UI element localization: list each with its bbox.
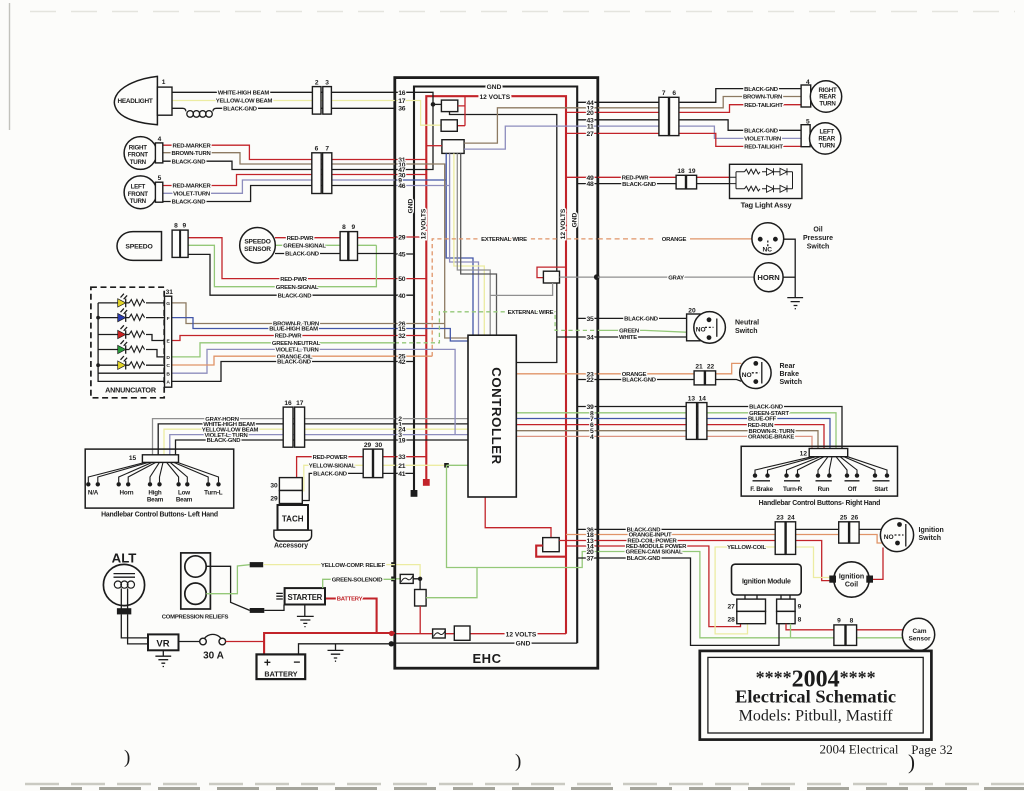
GND bottom row bbox=[395, 642, 577, 644]
svg-text:28: 28 bbox=[727, 616, 735, 623]
connector 13-14 bbox=[686, 403, 696, 440]
svg-text:RED-PWR: RED-PWR bbox=[275, 334, 303, 340]
salmon wire pin4 bbox=[516, 435, 597, 437]
battery negative wire bbox=[299, 644, 395, 655]
horn H1 bbox=[754, 263, 783, 292]
svg-text:Handlebar Control Buttons- Rig: Handlebar Control Buttons- Right Hand bbox=[759, 500, 881, 507]
svg-text:Beam: Beam bbox=[176, 497, 193, 504]
black stub pin39 bbox=[577, 406, 597, 408]
svg-text:17: 17 bbox=[296, 400, 304, 407]
12V bus terminal square bbox=[423, 479, 430, 486]
connector 6-7 bbox=[312, 153, 321, 194]
ground symbol oil/horn bbox=[787, 298, 803, 309]
connector 31 strip bbox=[165, 296, 172, 387]
row C yellow LED + resistor bbox=[98, 356, 164, 370]
svg-text:BROWN-TURN: BROWN-TURN bbox=[171, 151, 210, 157]
fuse 30A bbox=[205, 634, 222, 638]
red stub pin33 bbox=[395, 456, 427, 458]
svg-text:C: C bbox=[166, 363, 170, 369]
svg-text:24: 24 bbox=[787, 515, 795, 522]
svg-text:BATTERY: BATTERY bbox=[264, 669, 297, 678]
switch pair bars right hand bbox=[753, 480, 890, 482]
starter brush symbol bbox=[276, 593, 283, 599]
svg-text:Pressure: Pressure bbox=[803, 235, 833, 242]
coil terminal left bbox=[829, 576, 836, 583]
svg-text:GREEN-CAM SIGNAL: GREEN-CAM SIGNAL bbox=[626, 550, 683, 556]
orange wire pin23 bbox=[516, 373, 597, 375]
VR regulator bbox=[148, 634, 179, 650]
svg-text:BROWN-TURN: BROWN-TURN bbox=[743, 95, 782, 101]
EHC box bbox=[395, 78, 598, 669]
switch labels left hand bbox=[88, 490, 223, 504]
module legs bbox=[745, 595, 790, 599]
wire speedo red-pwr bbox=[188, 238, 395, 279]
tag light assy E1 bbox=[730, 164, 802, 198]
svg-text:2004 Electrical: 2004 Electrical bbox=[819, 742, 898, 757]
svg-text:22: 22 bbox=[707, 364, 715, 371]
left rear turn lamp bbox=[801, 125, 810, 147]
wire brown-turn RF turn bbox=[163, 153, 395, 164]
svg-text:45: 45 bbox=[398, 252, 405, 259]
wire speedo green-signal bbox=[188, 245, 376, 286]
wire relief bottom green to lug1 bbox=[206, 565, 250, 594]
battery positive feed red bbox=[264, 599, 395, 655]
svg-text:GREEN-SIGNAL: GREEN-SIGNAL bbox=[283, 244, 326, 250]
svg-text:Turn-L: Turn-L bbox=[204, 490, 223, 497]
svg-text:NC: NC bbox=[763, 247, 773, 254]
GND bus terminal square bbox=[411, 490, 418, 497]
switch labels right hand bbox=[750, 486, 889, 493]
wire module to cam red bbox=[786, 624, 904, 630]
wire white-high beam hb bbox=[158, 424, 395, 455]
right rear turn lamp bbox=[801, 85, 811, 107]
wire horn to ground bbox=[783, 276, 795, 278]
tach connector stack bbox=[279, 478, 302, 491]
connector 27-28 bbox=[737, 599, 766, 611]
svg-text:21: 21 bbox=[695, 364, 703, 371]
svg-text:RED-TAILIGHT: RED-TAILIGHT bbox=[744, 103, 783, 109]
relay K1 output white wire to pin34 bbox=[450, 112, 598, 363]
svg-text:37: 37 bbox=[587, 556, 594, 563]
svg-text:Handlebar Control Buttons- Lef: Handlebar Control Buttons- Left Hand bbox=[101, 511, 218, 518]
svg-text:B: B bbox=[166, 371, 170, 377]
svg-text:23: 23 bbox=[776, 515, 784, 522]
svg-text:RED-MARKER: RED-MARKER bbox=[172, 143, 211, 149]
strip pin letters bbox=[166, 301, 170, 386]
svg-text:8: 8 bbox=[850, 618, 854, 625]
EHC right pin numbers bbox=[587, 100, 594, 563]
svg-text:20: 20 bbox=[688, 308, 696, 315]
svg-text:48: 48 bbox=[587, 181, 594, 188]
svg-text:33: 33 bbox=[398, 454, 405, 461]
junction dot comp-relief bbox=[413, 579, 420, 590]
svg-text:Sensor: Sensor bbox=[908, 636, 931, 643]
svg-text:21: 21 bbox=[398, 463, 405, 470]
svg-text:20: 20 bbox=[587, 110, 594, 117]
svg-text:Switch: Switch bbox=[735, 328, 758, 335]
connector 2-3 bbox=[312, 87, 321, 115]
svg-text:YELLOW-COMP. RELIEF: YELLOW-COMP. RELIEF bbox=[321, 563, 386, 569]
wire red-coil power bbox=[598, 541, 830, 581]
svg-text:GREEN-SOLENOID: GREEN-SOLENOID bbox=[332, 578, 383, 584]
neutral switch S2 bbox=[687, 314, 700, 341]
wire black-gnd hbr bbox=[598, 407, 842, 449]
svg-text:4: 4 bbox=[590, 434, 594, 441]
black stub pin41 bbox=[395, 472, 414, 474]
connector 18-19 bbox=[676, 175, 685, 189]
wire green-cam signal bbox=[598, 552, 834, 638]
wire black-gnd hb bbox=[176, 440, 395, 455]
headlight coil loops bbox=[187, 111, 213, 118]
wire black-gnd RF turn bbox=[163, 161, 395, 169]
svg-text:RED-PWR: RED-PWR bbox=[287, 236, 315, 242]
svg-text:WHITE-HIGH BEAM: WHITE-HIGH BEAM bbox=[218, 90, 270, 96]
svg-text:9: 9 bbox=[837, 618, 841, 625]
wire black-gnd headlight with coil bbox=[172, 108, 395, 111]
blue wire pin15 to controller bbox=[395, 329, 468, 342]
wire fuse to battery red bbox=[226, 641, 265, 643]
black stub pin35 bbox=[577, 317, 597, 319]
svg-text:5: 5 bbox=[806, 119, 810, 126]
svg-text:YELLOW-SIGNAL: YELLOW-SIGNAL bbox=[309, 464, 356, 470]
svg-text:4: 4 bbox=[158, 136, 162, 143]
violet bundle wire pin46 bbox=[395, 153, 479, 335]
svg-text:RED-RUN: RED-RUN bbox=[748, 423, 774, 429]
svg-text:40: 40 bbox=[398, 293, 405, 300]
relay K2 green to cam-signal net bbox=[426, 568, 477, 598]
orange stub pin18 bbox=[566, 534, 597, 536]
svg-text:VIOLET-TURN: VIOLET-TURN bbox=[173, 191, 210, 197]
black stub pin44 bbox=[577, 101, 597, 103]
wire white neutral bbox=[598, 336, 689, 338]
ALT G1 bbox=[103, 564, 144, 605]
ALT stator symbol bbox=[114, 574, 136, 578]
wire red-tailight RR bbox=[598, 105, 801, 113]
connector 9-8 cam bbox=[834, 625, 845, 646]
svg-text:BLACK-GND: BLACK-GND bbox=[624, 317, 658, 323]
green wire pin8 bbox=[516, 412, 597, 414]
junction dot relay K1 feed bbox=[431, 102, 436, 107]
svg-text:BLUE-HIGH BEAM: BLUE-HIGH BEAM bbox=[269, 327, 318, 333]
svg-text:19: 19 bbox=[398, 438, 405, 445]
svg-text:F: F bbox=[167, 316, 170, 322]
svg-text:9: 9 bbox=[798, 603, 802, 610]
headlight LP1 shell bbox=[114, 76, 157, 124]
relay K3 bbox=[442, 140, 464, 154]
handlebar right box bbox=[741, 446, 897, 496]
svg-text:12 VOLTS: 12 VOLTS bbox=[506, 631, 537, 638]
wire black-gnd LF turn bbox=[163, 186, 395, 202]
svg-text:RED-PWR: RED-PWR bbox=[622, 176, 650, 182]
border terminal square yellow bbox=[391, 562, 396, 567]
svg-text:Switch: Switch bbox=[919, 535, 942, 542]
svg-text:RIGHT: RIGHT bbox=[129, 144, 147, 151]
svg-text:6: 6 bbox=[315, 145, 319, 152]
svg-text:GND: GND bbox=[408, 198, 415, 213]
red stub pin13 bbox=[559, 540, 597, 542]
connector 23-24 bbox=[775, 522, 785, 555]
rear brake switch S3 bbox=[740, 357, 771, 388]
tach signal yellow stub pin21 bbox=[395, 464, 447, 466]
wire orange-brake bbox=[598, 436, 812, 448]
svg-text:Models: Pitbull, Mastiff: Models: Pitbull, Mastiff bbox=[739, 708, 894, 725]
svg-text:SENSOR: SENSOR bbox=[244, 246, 271, 253]
cam sensor B2 bbox=[902, 618, 934, 650]
svg-text:VIOLET-L. TURN: VIOLET-L. TURN bbox=[275, 348, 318, 354]
svg-text:BLACK-GND: BLACK-GND bbox=[744, 87, 778, 93]
svg-text:ANNUNCIATOR: ANNUNCIATOR bbox=[105, 386, 157, 395]
svg-text:27: 27 bbox=[727, 603, 735, 610]
svg-text:30: 30 bbox=[270, 482, 278, 489]
red stub pin27 bbox=[566, 132, 597, 134]
row D green LED + resistor bbox=[98, 340, 164, 357]
svg-text:1: 1 bbox=[162, 79, 166, 86]
black stub pin48 bbox=[577, 183, 597, 185]
red stub pin14 bbox=[566, 545, 597, 547]
svg-text:22: 22 bbox=[587, 377, 594, 384]
svg-text:SPEEDO: SPEEDO bbox=[244, 238, 270, 245]
black stub pin22 bbox=[577, 379, 597, 381]
svg-text:BLUE-OFF: BLUE-OFF bbox=[748, 417, 777, 423]
black stub pin37 bbox=[577, 557, 597, 559]
wire yellow-low beam bbox=[172, 100, 395, 102]
junction square tach/cam signal bbox=[444, 463, 449, 468]
svg-text:46: 46 bbox=[398, 183, 405, 190]
svg-text:Brake: Brake bbox=[780, 371, 800, 378]
relay K1 bbox=[441, 100, 457, 112]
12 VOLTS bottom row bbox=[395, 633, 566, 635]
black wire pin19 bbox=[395, 439, 468, 441]
svg-text:19: 19 bbox=[688, 168, 696, 175]
svg-text:2: 2 bbox=[315, 79, 319, 86]
svg-text:EHC: EHC bbox=[473, 651, 502, 666]
svg-text:29: 29 bbox=[270, 496, 278, 503]
brown wire pin10 to controller bbox=[395, 164, 468, 338]
wire violet-l turn hb bbox=[170, 435, 395, 455]
right front turn lamp bbox=[124, 137, 157, 170]
wire ALT to VR bbox=[121, 614, 148, 644]
svg-text:36: 36 bbox=[398, 106, 405, 113]
svg-text:5: 5 bbox=[158, 175, 162, 182]
left front turn lamp bbox=[124, 176, 157, 209]
red wire pin6 bbox=[516, 424, 597, 426]
connector 8-9 speedo bbox=[172, 230, 180, 257]
svg-text:27: 27 bbox=[587, 131, 594, 138]
green cam signal net bbox=[447, 465, 598, 567]
svg-text:Accessory: Accessory bbox=[274, 542, 308, 549]
fuse F2 bbox=[400, 574, 413, 583]
compression reliefs Y1 bbox=[181, 553, 211, 609]
svg-text:30 A: 30 A bbox=[203, 651, 224, 662]
connector 7-6 bbox=[659, 97, 669, 135]
svg-text:12 VOLTS: 12 VOLTS bbox=[421, 208, 428, 239]
junction dot red at EHC bbox=[389, 631, 394, 636]
row E red LED + resistor bbox=[98, 325, 164, 340]
wire red-pwr pin E bbox=[172, 336, 395, 341]
black stub pin45 bbox=[395, 253, 414, 255]
svg-text:TURN: TURN bbox=[130, 198, 147, 205]
svg-text:29: 29 bbox=[364, 442, 372, 449]
svg-text:50: 50 bbox=[398, 276, 405, 283]
title outer border bbox=[700, 651, 932, 740]
relay K3 brown wire to pin12 bbox=[464, 108, 597, 143]
wire black-gnd ign bbox=[598, 528, 882, 530]
svg-text:ORANGE: ORANGE bbox=[662, 237, 687, 243]
svg-text:GREEN: GREEN bbox=[619, 328, 639, 334]
svg-text:Coil: Coil bbox=[845, 582, 858, 589]
red stub pin49 bbox=[566, 176, 597, 178]
svg-text:WHITE: WHITE bbox=[619, 335, 637, 341]
wire green-solenoid bbox=[323, 579, 395, 588]
wire sensor green-signal bbox=[275, 244, 376, 246]
switch contact dots right hand bbox=[753, 473, 889, 477]
gray horn wire bbox=[560, 276, 598, 278]
connector 21-22 bbox=[694, 371, 704, 385]
wire red-pwr tag bbox=[598, 176, 730, 178]
fuse F5 on 12V row bbox=[433, 629, 446, 638]
svg-text:BLACK-GND: BLACK-GND bbox=[627, 556, 661, 562]
svg-text:STARTER: STARTER bbox=[288, 593, 323, 602]
relay K5 bbox=[454, 626, 470, 640]
gray wire pin2 bbox=[395, 418, 468, 420]
svg-text:Ignition Module: Ignition Module bbox=[742, 578, 791, 585]
svg-text:Tag Light Assy: Tag Light Assy bbox=[741, 201, 793, 210]
svg-text:TURN: TURN bbox=[819, 100, 836, 107]
switch contact dots left hand bbox=[86, 482, 221, 486]
connector 15 bar bbox=[142, 455, 178, 463]
svg-text:CONTROLLER: CONTROLLER bbox=[489, 367, 504, 465]
connector 16-17 bbox=[283, 407, 293, 447]
wire black-gnd pin A bbox=[172, 362, 395, 382]
lug blob 2 bbox=[250, 608, 265, 613]
black wire pin1 bbox=[395, 423, 468, 425]
wire VR to fuse bbox=[179, 641, 200, 643]
dark bundle wire bbox=[461, 153, 497, 335]
svg-text:8: 8 bbox=[342, 224, 346, 231]
violet annunciator left-turn wire bbox=[395, 349, 455, 434]
switch fan right hand bbox=[755, 457, 887, 474]
svg-text:TACH: TACH bbox=[282, 515, 304, 524]
ignition module A1 bbox=[732, 564, 802, 595]
svg-text:9: 9 bbox=[351, 224, 355, 231]
GND top bus bbox=[414, 87, 577, 644]
svg-text:BLACK-GND: BLACK-GND bbox=[744, 129, 778, 135]
wire orange-oil pin C bbox=[172, 356, 395, 365]
gray wire relay K6 to controller bbox=[490, 283, 552, 295]
svg-text:NO: NO bbox=[884, 534, 894, 541]
svg-text:YELLOW-COIL: YELLOW-COIL bbox=[727, 545, 766, 551]
wire red-tailight LR bbox=[598, 133, 801, 146]
svg-text:7: 7 bbox=[662, 90, 666, 97]
relay K2 to battery red bbox=[419, 606, 421, 634]
wire black-gnd tag bbox=[598, 183, 730, 185]
speedo M1 bbox=[117, 232, 162, 261]
EHC left pin numbers bbox=[398, 90, 405, 478]
svg-text:BATTERY: BATTERY bbox=[337, 597, 363, 603]
red stub pin32 bbox=[395, 335, 427, 337]
wire brown-r turn pin G bbox=[172, 303, 395, 324]
headlight socket bbox=[157, 87, 172, 115]
svg-text:Page 32: Page 32 bbox=[911, 742, 953, 757]
svg-text:Off: Off bbox=[848, 486, 858, 493]
svg-text:ORANGE-BRAKE: ORANGE-BRAKE bbox=[748, 435, 794, 441]
wire brown-turn RR bbox=[598, 97, 801, 108]
svg-text:35: 35 bbox=[587, 316, 594, 323]
svg-text:Ignition: Ignition bbox=[839, 573, 864, 580]
svg-text:FRONT: FRONT bbox=[128, 152, 149, 159]
svg-text:BLACK-GND: BLACK-GND bbox=[622, 182, 656, 188]
blue wire pin7 bbox=[516, 418, 597, 420]
red stub pin20 bbox=[566, 111, 597, 113]
wire sensor red-pwr bbox=[275, 237, 395, 239]
tag light diodes bbox=[767, 168, 788, 192]
svg-text:16: 16 bbox=[398, 90, 405, 97]
ALT leads bbox=[121, 588, 127, 608]
orange oil external dashed wire bbox=[395, 355, 432, 357]
wire module green branch bbox=[791, 624, 904, 638]
battery ground symbol bbox=[328, 644, 344, 661]
svg-text:HORN: HORN bbox=[757, 273, 779, 282]
black stub pin40 bbox=[395, 294, 414, 296]
wire oil switch to ground bbox=[784, 239, 796, 297]
svg-text:A: A bbox=[166, 380, 170, 386]
ALT connector blob bbox=[117, 608, 131, 614]
wire green-start bbox=[598, 413, 836, 449]
wire red-marker LF turn bbox=[163, 175, 395, 186]
svg-text:LEFT: LEFT bbox=[131, 184, 146, 191]
wire ignition switch to coil red bbox=[873, 548, 883, 580]
svg-text:Switch: Switch bbox=[807, 244, 830, 251]
red stub pin29 bbox=[395, 236, 427, 238]
svg-text:Cam: Cam bbox=[912, 628, 926, 635]
left common bus bbox=[98, 303, 164, 382]
svg-text:EXTERNAL WIRE: EXTERNAL WIRE bbox=[508, 310, 554, 316]
svg-text:Oil: Oil bbox=[813, 226, 822, 233]
connector 29-30 bbox=[363, 449, 372, 478]
svg-text:14: 14 bbox=[699, 395, 707, 402]
brown stub pin26 bbox=[395, 323, 445, 325]
annunciator dashed enclosure bbox=[91, 287, 164, 398]
svg-text:YELLOW-LOW BEAM: YELLOW-LOW BEAM bbox=[216, 99, 273, 105]
battery GB1 bbox=[257, 654, 306, 679]
svg-text:−: − bbox=[293, 655, 300, 669]
svg-text:11: 11 bbox=[587, 124, 594, 131]
svg-text:34: 34 bbox=[587, 335, 594, 342]
svg-text:GND: GND bbox=[516, 641, 531, 648]
svg-text:8: 8 bbox=[798, 616, 802, 623]
svg-text:Turn-R: Turn-R bbox=[783, 486, 803, 493]
svg-text:Neutral: Neutral bbox=[735, 320, 759, 327]
brown wire pin5 bbox=[516, 430, 597, 432]
svg-text:BLACK-GND: BLACK-GND bbox=[313, 472, 347, 478]
svg-text:18: 18 bbox=[677, 168, 685, 175]
junction dot black at EHC bbox=[389, 641, 394, 646]
svg-text:RED-PWR: RED-PWR bbox=[280, 277, 308, 283]
wire yellow-signal tach bbox=[304, 465, 395, 491]
wire red-power tach bbox=[297, 457, 395, 478]
blue bundle wire pin9 bbox=[395, 153, 473, 335]
wire red-run bbox=[598, 425, 824, 449]
svg-text:NO: NO bbox=[696, 327, 706, 334]
wire blue-high beam pin F bbox=[172, 318, 395, 329]
starter ground bbox=[297, 605, 314, 627]
svg-text:42: 42 bbox=[398, 359, 405, 366]
svg-text:Low: Low bbox=[178, 490, 190, 497]
row F blue LED + resistor bbox=[98, 308, 164, 321]
border terminal square green bbox=[391, 577, 396, 582]
wire green neutral bbox=[598, 330, 689, 332]
svg-text:12 VOLTS: 12 VOLTS bbox=[479, 94, 510, 101]
